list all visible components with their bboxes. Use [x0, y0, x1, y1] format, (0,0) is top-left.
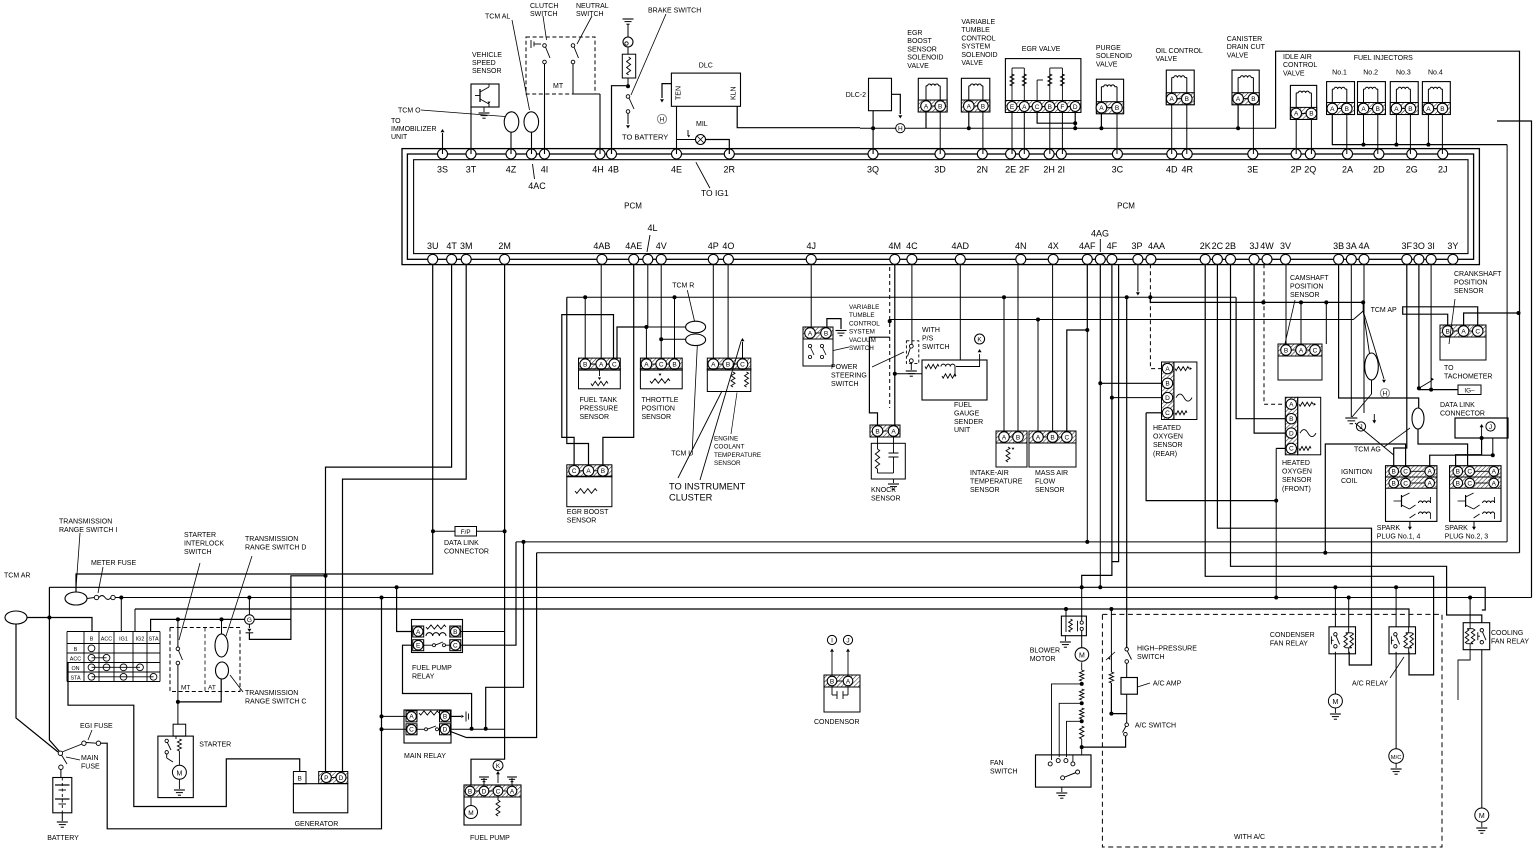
svg-text:A: A	[1330, 106, 1335, 113]
svg-text:B: B	[298, 776, 302, 783]
svg-text:ENGINE: ENGINE	[714, 436, 738, 443]
svg-text:A: A	[808, 330, 813, 337]
svg-text:4C: 4C	[906, 241, 918, 251]
svg-text:K: K	[977, 337, 982, 344]
svg-text:SOLENOID: SOLENOID	[961, 52, 997, 59]
svg-text:A: A	[1461, 328, 1466, 335]
svg-text:ACC: ACC	[101, 637, 112, 643]
svg-text:CAMSHAFT: CAMSHAFT	[1290, 275, 1329, 282]
svg-text:C: C	[659, 361, 664, 368]
svg-text:OXYGEN: OXYGEN	[1153, 434, 1183, 441]
svg-text:A: A	[1426, 106, 1431, 113]
svg-text:A: A	[1299, 347, 1304, 354]
svg-text:C: C	[572, 468, 577, 475]
svg-text:SWITCH: SWITCH	[990, 769, 1018, 776]
svg-text:M: M	[1332, 699, 1338, 706]
svg-text:RANGE SWITCH I: RANGE SWITCH I	[59, 527, 117, 534]
svg-text:B: B	[90, 637, 94, 643]
svg-text:A/C SWITCH: A/C SWITCH	[1135, 723, 1176, 730]
svg-text:EGR: EGR	[907, 30, 922, 37]
svg-text:E: E	[416, 643, 421, 650]
svg-text:VACUUM: VACUUM	[849, 337, 876, 344]
svg-text:FLOW: FLOW	[1035, 478, 1056, 485]
svg-text:4AA: 4AA	[1148, 241, 1165, 251]
svg-text:3Y: 3Y	[1447, 241, 1458, 251]
svg-text:4AE: 4AE	[625, 241, 642, 251]
svg-text:K: K	[496, 763, 501, 770]
svg-text:DLC: DLC	[699, 63, 713, 70]
svg-text:SPARK: SPARK	[1445, 525, 1469, 532]
svg-text:SENSOR: SENSOR	[970, 487, 1000, 494]
svg-text:BATTERY: BATTERY	[47, 835, 79, 842]
svg-text:4V: 4V	[656, 241, 667, 251]
svg-text:CANISTER: CANISTER	[1227, 36, 1262, 43]
svg-text:OXYGEN: OXYGEN	[1282, 469, 1312, 476]
svg-text:4AG: 4AG	[1091, 229, 1109, 239]
svg-text:SYSTEM: SYSTEM	[849, 329, 875, 336]
svg-text:B: B	[1345, 106, 1349, 113]
svg-text:VALVE: VALVE	[1227, 52, 1249, 59]
svg-text:4AD: 4AD	[952, 241, 970, 251]
svg-text:A: A	[924, 103, 929, 110]
svg-text:SWITCH: SWITCH	[576, 11, 604, 18]
svg-text:A: A	[510, 788, 515, 795]
svg-text:MAIN: MAIN	[81, 755, 99, 762]
svg-text:3U: 3U	[427, 241, 439, 251]
svg-text:TUMBLE: TUMBLE	[849, 312, 875, 319]
svg-text:VARIABLE: VARIABLE	[961, 19, 995, 26]
svg-text:MIL: MIL	[696, 121, 708, 128]
svg-text:KNOCK: KNOCK	[871, 487, 896, 494]
svg-text:2P: 2P	[1291, 165, 1302, 175]
svg-text:B: B	[1115, 105, 1119, 112]
svg-text:COOLING: COOLING	[1491, 630, 1523, 637]
svg-text:4B: 4B	[608, 165, 619, 175]
svg-text:PLUG No.2, 3: PLUG No.2, 3	[1445, 534, 1489, 541]
svg-text:SPEED: SPEED	[472, 60, 496, 67]
svg-text:No.2: No.2	[1363, 70, 1378, 77]
svg-text:CONTROL: CONTROL	[1283, 62, 1317, 69]
svg-text:STARTER: STARTER	[199, 742, 231, 749]
svg-text:4T: 4T	[446, 241, 457, 251]
svg-text:3A: 3A	[1346, 241, 1357, 251]
svg-text:B: B	[672, 361, 676, 368]
svg-text:IG–: IG–	[1464, 388, 1475, 395]
svg-text:C: C	[1165, 410, 1170, 417]
svg-text:A: A	[416, 629, 421, 636]
svg-text:RANGE SWITCH D: RANGE SWITCH D	[245, 544, 306, 551]
svg-text:No.3: No.3	[1396, 70, 1411, 77]
svg-text:HEATED: HEATED	[1153, 425, 1181, 432]
svg-text:B: B	[1392, 480, 1396, 487]
svg-text:A: A	[599, 361, 604, 368]
svg-text:A: A	[1428, 469, 1433, 476]
svg-text:FAN: FAN	[990, 760, 1004, 767]
svg-text:4E: 4E	[671, 165, 682, 175]
svg-text:MT: MT	[553, 83, 564, 90]
svg-text:M: M	[176, 770, 182, 777]
svg-text:C: C	[1475, 328, 1480, 335]
svg-text:GENERATOR: GENERATOR	[295, 821, 339, 828]
svg-text:4AF: 4AF	[1079, 241, 1096, 251]
svg-text:VARIABLE: VARIABLE	[849, 304, 879, 311]
svg-text:VALVE: VALVE	[907, 63, 929, 70]
svg-text:SENDER: SENDER	[954, 419, 983, 426]
svg-text:SWITCH: SWITCH	[849, 345, 874, 352]
svg-text:B: B	[938, 103, 942, 110]
svg-text:EGR BOOST: EGR BOOST	[567, 509, 609, 516]
svg-text:(REAR): (REAR)	[1153, 451, 1177, 458]
svg-text:M: M	[1479, 813, 1485, 820]
svg-text:4A: 4A	[1358, 241, 1369, 251]
svg-text:TUMBLE: TUMBLE	[961, 27, 990, 34]
svg-text:MAIN RELAY: MAIN RELAY	[404, 753, 446, 760]
svg-text:H: H	[1383, 391, 1388, 398]
svg-text:COOLANT: COOLANT	[714, 444, 745, 451]
svg-text:A: A	[1002, 434, 1007, 441]
svg-text:CRANKSHAFT: CRANKSHAFT	[1454, 271, 1502, 278]
svg-text:3E: 3E	[1247, 165, 1258, 175]
svg-text:4X: 4X	[1048, 241, 1059, 251]
svg-text:A: A	[644, 361, 649, 368]
svg-text:PLUG No.1, 4: PLUG No.1, 4	[1377, 534, 1421, 541]
svg-text:CLUTCH: CLUTCH	[530, 3, 558, 10]
svg-text:2D: 2D	[1373, 165, 1385, 175]
svg-text:2Q: 2Q	[1304, 165, 1316, 175]
svg-text:A: A	[711, 361, 716, 368]
svg-text:DATA LINK: DATA LINK	[1440, 402, 1475, 409]
svg-text:H: H	[898, 126, 903, 133]
svg-text:B: B	[601, 468, 605, 475]
svg-text:J: J	[846, 638, 849, 645]
svg-text:ON: ON	[71, 666, 79, 672]
svg-text:3D: 3D	[934, 165, 946, 175]
svg-text:C: C	[1467, 480, 1472, 487]
svg-text:FUEL INJECTORS: FUEL INJECTORS	[1354, 55, 1413, 62]
svg-text:4N: 4N	[1015, 241, 1027, 251]
svg-text:POSITION: POSITION	[1454, 280, 1487, 287]
svg-text:I: I	[831, 638, 833, 645]
svg-text:4D: 4D	[1166, 165, 1178, 175]
svg-text:C: C	[1064, 434, 1069, 441]
svg-text:C: C	[1313, 347, 1318, 354]
svg-text:TO: TO	[391, 118, 401, 125]
svg-text:3J: 3J	[1249, 241, 1259, 251]
svg-text:VALVE: VALVE	[961, 60, 983, 67]
svg-text:STARTER: STARTER	[184, 532, 216, 539]
svg-text:B: B	[1456, 469, 1460, 476]
svg-text:2N: 2N	[977, 165, 989, 175]
svg-text:A: A	[586, 468, 591, 475]
svg-text:A: A	[1170, 96, 1175, 103]
svg-text:DATA LINK: DATA LINK	[444, 540, 479, 547]
svg-text:4W: 4W	[1260, 241, 1274, 251]
svg-text:HIGH–PRESSURE: HIGH–PRESSURE	[1137, 646, 1197, 653]
svg-text:WITH: WITH	[922, 327, 940, 334]
svg-text:GAUGE: GAUGE	[954, 410, 980, 417]
svg-text:A: A	[1492, 469, 1497, 476]
svg-text:C: C	[1035, 104, 1040, 111]
svg-text:MOTOR: MOTOR	[1030, 656, 1056, 663]
svg-text:TO BATTERY: TO BATTERY	[622, 133, 668, 142]
svg-text:SWITCH: SWITCH	[922, 344, 950, 351]
svg-text:B: B	[1251, 96, 1255, 103]
svg-text:FAN RELAY: FAN RELAY	[1491, 639, 1529, 646]
svg-text:B: B	[1376, 106, 1380, 113]
svg-text:SYSTEM: SYSTEM	[961, 44, 990, 51]
svg-text:PCM: PCM	[1117, 202, 1135, 211]
svg-text:TO: TO	[1444, 365, 1454, 372]
svg-text:TCM AP: TCM AP	[1371, 307, 1397, 314]
svg-text:2A: 2A	[1342, 165, 1353, 175]
svg-text:2R: 2R	[724, 165, 736, 175]
svg-text:CONTROL: CONTROL	[849, 320, 880, 327]
svg-text:EGR VALVE: EGR VALVE	[1022, 46, 1061, 53]
svg-text:IG1: IG1	[119, 637, 128, 643]
svg-text:3I: 3I	[1427, 241, 1435, 251]
svg-text:B: B	[1392, 469, 1396, 476]
svg-text:DRAIN CUT: DRAIN CUT	[1227, 44, 1266, 51]
svg-text:A: A	[1289, 402, 1294, 409]
svg-text:SENSOR: SENSOR	[1153, 442, 1183, 449]
svg-text:2K: 2K	[1200, 241, 1211, 251]
svg-text:C: C	[1289, 446, 1294, 453]
svg-text:B: B	[583, 361, 587, 368]
svg-text:2J: 2J	[1438, 165, 1448, 175]
svg-text:B: B	[875, 428, 879, 435]
svg-text:TO INSTRUMENT: TO INSTRUMENT	[669, 482, 746, 492]
svg-text:A: A	[1236, 96, 1241, 103]
svg-text:PCM: PCM	[624, 202, 642, 211]
svg-text:VALVE: VALVE	[1156, 56, 1178, 63]
svg-text:SENSOR: SENSOR	[1282, 477, 1312, 484]
svg-text:FUSE: FUSE	[81, 763, 100, 770]
svg-text:2G: 2G	[1406, 165, 1418, 175]
svg-text:SPARK: SPARK	[1377, 525, 1401, 532]
svg-text:SOLENOID: SOLENOID	[1096, 53, 1132, 60]
svg-text:POSITION: POSITION	[1290, 284, 1323, 291]
svg-text:SENSOR: SENSOR	[714, 460, 741, 467]
svg-text:BLOWER: BLOWER	[1030, 648, 1060, 655]
svg-text:4Z: 4Z	[506, 165, 517, 175]
svg-text:C: C	[740, 361, 745, 368]
svg-text:RANGE SWITCH C: RANGE SWITCH C	[245, 698, 306, 705]
svg-text:SENSOR: SENSOR	[642, 414, 672, 421]
svg-text:B: B	[1289, 416, 1293, 423]
svg-text:B: B	[1440, 106, 1444, 113]
svg-text:SENSOR: SENSOR	[472, 68, 502, 75]
svg-text:J: J	[1489, 424, 1492, 431]
svg-text:A: A	[1394, 106, 1399, 113]
svg-text:3Q: 3Q	[867, 165, 879, 175]
svg-text:A: A	[1428, 480, 1433, 487]
svg-text:C: C	[453, 643, 458, 650]
svg-text:A: A	[1294, 111, 1299, 118]
svg-text:IDLE AIR: IDLE AIR	[1283, 54, 1312, 61]
svg-text:C: C	[1403, 469, 1408, 476]
svg-text:SENSOR: SENSOR	[871, 495, 901, 502]
svg-text:(FRONT): (FRONT)	[1282, 486, 1311, 493]
svg-text:B: B	[1016, 434, 1020, 441]
svg-text:PRESSURE: PRESSURE	[580, 405, 619, 412]
svg-text:TEN: TEN	[676, 86, 683, 100]
svg-text:D: D	[339, 775, 344, 782]
svg-text:VALVE: VALVE	[1283, 70, 1305, 77]
svg-text:AT: AT	[208, 685, 216, 692]
svg-text:B: B	[468, 788, 472, 795]
svg-text:4F: 4F	[1107, 241, 1118, 251]
svg-text:TCM R: TCM R	[672, 283, 694, 290]
svg-text:A: A	[846, 678, 851, 685]
svg-text:CONDENSER: CONDENSER	[1270, 632, 1315, 639]
svg-text:2C: 2C	[1212, 241, 1224, 251]
svg-text:B: B	[1165, 381, 1169, 388]
svg-text:METER FUSE: METER FUSE	[91, 560, 136, 567]
svg-text:TCM AR: TCM AR	[4, 573, 30, 580]
svg-text:EGI FUSE: EGI FUSE	[80, 723, 113, 730]
svg-text:3M: 3M	[460, 241, 473, 251]
svg-text:B: B	[1309, 111, 1313, 118]
svg-text:2B: 2B	[1225, 241, 1236, 251]
svg-text:No.4: No.4	[1428, 70, 1443, 77]
svg-text:4P: 4P	[708, 241, 719, 251]
svg-text:TCM O: TCM O	[398, 108, 421, 115]
svg-text:2I: 2I	[1058, 165, 1066, 175]
svg-text:M/C: M/C	[1391, 755, 1402, 761]
svg-text:SWITCH: SWITCH	[530, 11, 558, 18]
svg-text:CONTROL: CONTROL	[961, 35, 995, 42]
svg-text:TRANSMISSION: TRANSMISSION	[245, 690, 298, 697]
svg-text:B: B	[824, 330, 828, 337]
svg-text:4R: 4R	[1181, 165, 1193, 175]
svg-text:SWITCH: SWITCH	[184, 549, 212, 556]
svg-text:COIL: COIL	[1341, 478, 1357, 485]
svg-text:B: B	[981, 103, 985, 110]
svg-text:No.1: No.1	[1332, 70, 1347, 77]
svg-text:4AB: 4AB	[593, 241, 610, 251]
svg-text:4I: 4I	[541, 165, 549, 175]
svg-text:STA: STA	[148, 637, 158, 643]
svg-text:H: H	[660, 117, 665, 124]
svg-text:TO IG1: TO IG1	[701, 188, 729, 198]
svg-text:A: A	[1361, 106, 1366, 113]
svg-text:B: B	[726, 361, 730, 368]
svg-text:RELAY: RELAY	[412, 673, 435, 680]
svg-text:C: C	[1467, 469, 1472, 476]
svg-text:B: B	[453, 629, 457, 636]
svg-text:MASS AIR: MASS AIR	[1035, 470, 1068, 477]
svg-text:INTAKE-AIR: INTAKE-AIR	[970, 470, 1009, 477]
svg-text:B: B	[74, 647, 78, 653]
svg-text:P/S: P/S	[922, 335, 934, 342]
svg-text:TCM AL: TCM AL	[485, 14, 510, 21]
svg-text:A: A	[891, 428, 896, 435]
svg-text:3B: 3B	[1333, 241, 1344, 251]
svg-text:UNIT: UNIT	[954, 427, 971, 434]
svg-text:2F: 2F	[1019, 165, 1030, 175]
svg-text:C: C	[496, 788, 501, 795]
svg-text:SWITCH: SWITCH	[1137, 654, 1165, 661]
svg-text:FUEL PUMP: FUEL PUMP	[470, 835, 510, 842]
svg-text:4H: 4H	[592, 165, 604, 175]
svg-text:NEUTRAL: NEUTRAL	[576, 3, 609, 10]
svg-text:3V: 3V	[1280, 241, 1291, 251]
svg-text:3P: 3P	[1131, 241, 1142, 251]
svg-text:A: A	[1099, 105, 1104, 112]
svg-text:VEHICLE: VEHICLE	[472, 52, 502, 59]
svg-text:TRANSMISSION: TRANSMISSION	[59, 519, 112, 526]
svg-text:KLN: KLN	[731, 86, 738, 100]
svg-text:TCM AG: TCM AG	[1354, 447, 1381, 454]
svg-text:FAN RELAY: FAN RELAY	[1270, 641, 1308, 648]
svg-text:D: D	[1165, 395, 1170, 402]
svg-text:2M: 2M	[498, 241, 511, 251]
svg-text:F: F	[1060, 104, 1064, 111]
svg-text:INTERLOCK: INTERLOCK	[184, 540, 224, 547]
svg-text:WITH A/C: WITH A/C	[1234, 834, 1265, 841]
svg-text:CONDENSOR: CONDENSOR	[814, 719, 860, 726]
svg-text:A: A	[1036, 434, 1041, 441]
svg-text:TRANSMISSION: TRANSMISSION	[245, 536, 298, 543]
svg-text:ACC: ACC	[70, 656, 81, 662]
svg-text:FUEL TANK: FUEL TANK	[580, 397, 618, 404]
svg-text:SENSOR: SENSOR	[907, 46, 937, 53]
svg-text:4M: 4M	[889, 241, 902, 251]
svg-text:SENSOR: SENSOR	[580, 414, 610, 421]
svg-text:A: A	[1165, 366, 1170, 373]
svg-text:4J: 4J	[806, 241, 816, 251]
svg-text:A/C RELAY: A/C RELAY	[1352, 681, 1388, 688]
svg-text:4AC: 4AC	[528, 181, 546, 191]
svg-text:B: B	[830, 678, 834, 685]
svg-text:SENSOR: SENSOR	[1290, 292, 1320, 299]
svg-text:POSITION: POSITION	[642, 405, 675, 412]
svg-text:THROTTLE: THROTTLE	[642, 397, 679, 404]
svg-text:BOOST: BOOST	[907, 38, 932, 45]
svg-text:HEATED: HEATED	[1282, 460, 1310, 467]
svg-text:3T: 3T	[466, 165, 477, 175]
svg-text:CONNECTOR: CONNECTOR	[444, 548, 489, 555]
svg-text:B: B	[1048, 104, 1052, 111]
svg-text:SENSOR: SENSOR	[1035, 487, 1065, 494]
svg-text:E: E	[1010, 104, 1015, 111]
svg-text:A: A	[1492, 480, 1497, 487]
svg-text:POWER: POWER	[831, 364, 857, 371]
svg-text:BRAKE SWITCH: BRAKE SWITCH	[648, 8, 701, 15]
svg-text:3F: 3F	[1402, 241, 1413, 251]
svg-text:CLUSTER: CLUSTER	[669, 493, 713, 503]
svg-text:STEERING: STEERING	[831, 372, 867, 379]
svg-text:D: D	[1073, 104, 1078, 111]
svg-text:FUEL: FUEL	[954, 402, 972, 409]
svg-text:3C: 3C	[1112, 165, 1124, 175]
svg-text:SENSOR: SENSOR	[567, 517, 597, 524]
svg-text:F/P: F/P	[461, 529, 471, 536]
svg-text:B: B	[1050, 434, 1054, 441]
svg-text:A: A	[409, 714, 414, 721]
svg-text:B: B	[1284, 347, 1288, 354]
svg-text:M: M	[468, 810, 473, 817]
svg-text:STA: STA	[70, 675, 80, 681]
svg-text:D: D	[443, 727, 448, 734]
svg-text:D: D	[1289, 430, 1294, 437]
svg-text:P: P	[324, 775, 328, 782]
svg-text:2E: 2E	[1005, 165, 1016, 175]
svg-text:SENSOR: SENSOR	[1454, 288, 1484, 295]
svg-text:C: C	[612, 361, 617, 368]
svg-text:TEMPERATURE: TEMPERATURE	[714, 452, 761, 459]
svg-text:SWITCH: SWITCH	[831, 381, 859, 388]
